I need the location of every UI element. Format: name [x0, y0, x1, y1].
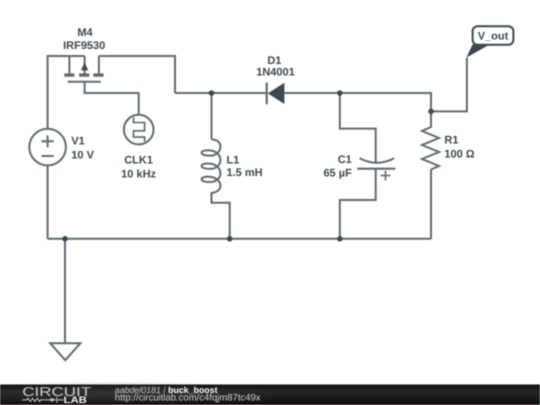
logo squiggle resistor + diode	[23, 397, 64, 403]
wire V_out to R1 top node	[431, 58, 467, 112]
svg-text:C1: C1	[338, 154, 352, 166]
svg-text:M4: M4	[77, 27, 93, 39]
wire mid from drain corner to diode	[175, 92, 266, 94]
wire R1 bottom stub	[430, 170, 432, 239]
node dot R1 top / V_out	[428, 109, 434, 115]
C1 straight plate	[357, 168, 395, 170]
M4 body stub	[84, 56, 86, 74]
svg-text:100 Ω: 100 Ω	[444, 149, 474, 161]
svg-text:10 V: 10 V	[71, 150, 94, 162]
svg-text:LAB: LAB	[64, 395, 88, 405]
wire L1 bottom jog	[212, 193, 230, 239]
node dot L1 top	[209, 90, 215, 96]
node dot ground tap	[62, 236, 68, 242]
ground symbol	[50, 343, 80, 360]
wire C1 bottom jog	[340, 169, 376, 239]
wire V1 bottom to rail	[47, 165, 49, 238]
M4 body arrow	[81, 62, 88, 70]
M4 drain stub	[98, 56, 100, 74]
svg-text:V1: V1	[71, 136, 84, 148]
wire bottom rail	[48, 238, 431, 240]
C1 plus sign	[381, 171, 391, 181]
wire L1 top	[211, 93, 213, 139]
resistor R1	[422, 111, 439, 169]
M4 channel bars	[64, 73, 103, 76]
wire ground tap	[64, 239, 66, 343]
capacitor C1	[357, 158, 395, 180]
wire top rail drain side	[99, 56, 175, 93]
svg-text:V_out: V_out	[478, 31, 509, 43]
diode D1 1N4001	[267, 83, 285, 105]
svg-text:65 µF: 65 µF	[323, 168, 352, 180]
transistor Q M4 IRF9530 p-channel mosfet	[64, 56, 103, 82]
node dot C1 top	[337, 90, 343, 96]
footer bar	[0, 381, 540, 405]
svg-text:R1: R1	[444, 134, 458, 146]
node dot L1 bottom	[227, 236, 233, 242]
svg-text:1.5 mH: 1.5 mH	[227, 167, 263, 179]
clock source CLK1	[124, 115, 154, 145]
svg-text:CLK1: CLK1	[124, 154, 153, 166]
svg-text:L1: L1	[227, 155, 240, 167]
node dot C1 bottom	[337, 236, 343, 242]
svg-text:10 kHz: 10 kHz	[121, 169, 156, 181]
wire C1 top jog	[340, 93, 376, 163]
inductor L1	[202, 139, 221, 193]
net flag V_out	[466, 26, 513, 57]
svg-text:http://circuitlab.com/c4fqjm87: http://circuitlab.com/c4fqjm87tc49x	[115, 393, 261, 404]
M4 gate plate	[68, 81, 101, 83]
wire top rail source side	[48, 56, 85, 129]
C1 curved plate	[360, 158, 395, 163]
voltage source V1	[29, 129, 66, 166]
svg-text:IRF9530: IRF9530	[63, 40, 105, 52]
svg-text:D1: D1	[267, 55, 281, 67]
svg-text:1N4001: 1N4001	[256, 67, 295, 79]
wire diode anode to R1 corner	[284, 93, 431, 111]
M4 source stub	[68, 56, 70, 74]
wire gate to CLK1	[85, 82, 139, 115]
